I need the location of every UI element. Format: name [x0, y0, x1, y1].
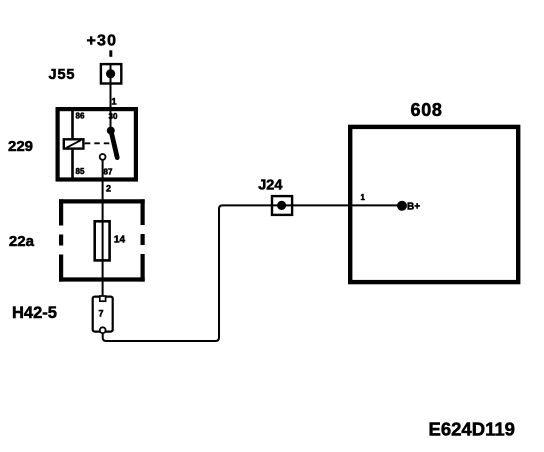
svg-text:J55: J55 [49, 67, 76, 83]
svg-text:7: 7 [99, 308, 104, 318]
svg-text:87: 87 [104, 168, 113, 177]
svg-text:E624D119: E624D119 [429, 419, 515, 440]
svg-text:H42-5: H42-5 [12, 304, 57, 322]
svg-text:+30: +30 [87, 33, 118, 50]
svg-text:86: 86 [76, 112, 85, 121]
svg-text:2: 2 [106, 184, 111, 194]
svg-text:1: 1 [361, 193, 366, 202]
svg-text:14: 14 [114, 235, 126, 246]
svg-text:B+: B+ [407, 202, 420, 213]
svg-text:608: 608 [411, 100, 443, 120]
svg-text:1: 1 [112, 97, 117, 107]
svg-text:J24: J24 [258, 178, 282, 194]
svg-text:229: 229 [8, 138, 33, 155]
svg-text:22a: 22a [9, 233, 35, 250]
svg-text:85: 85 [76, 167, 85, 176]
